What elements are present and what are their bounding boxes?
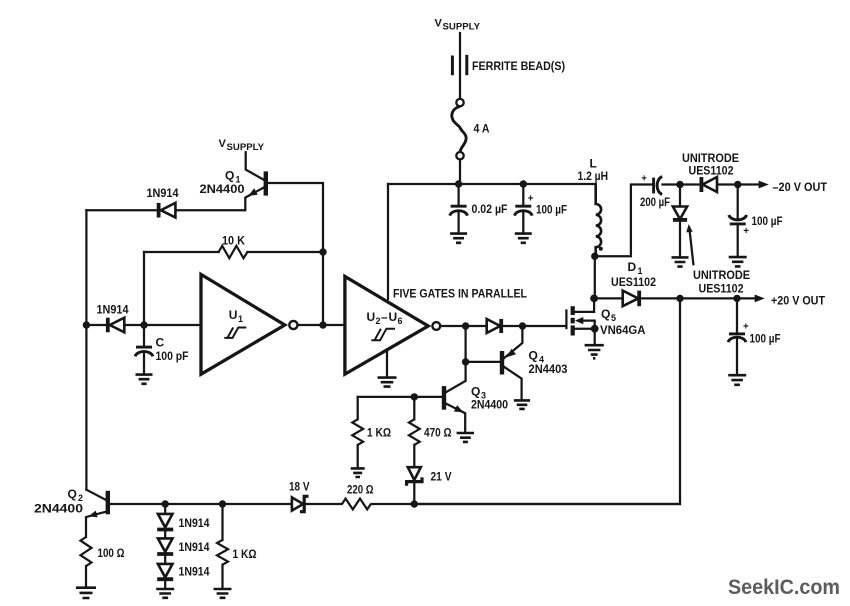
svg-text:100 µF: 100 µF — [536, 203, 567, 217]
svg-text:V: V — [219, 138, 227, 150]
svg-text:UES1102: UES1102 — [611, 275, 656, 289]
svg-text:100 Ω: 100 Ω — [98, 546, 125, 560]
svg-text:UNITRODE: UNITRODE — [693, 268, 750, 282]
svg-text:+: + — [641, 173, 647, 184]
svg-text:–: – — [381, 310, 388, 324]
svg-text:2N4400: 2N4400 — [471, 398, 508, 412]
svg-text:21 V: 21 V — [431, 470, 452, 484]
svg-text:+: + — [743, 226, 749, 237]
svg-text:5: 5 — [611, 313, 616, 323]
svg-text:10 K: 10 K — [222, 234, 245, 248]
svg-text:1 KΩ: 1 KΩ — [233, 547, 257, 561]
svg-text:UES1102: UES1102 — [699, 282, 744, 296]
svg-text:1.2 µH: 1.2 µH — [578, 169, 609, 183]
svg-text:200 µF: 200 µF — [640, 195, 670, 209]
svg-text:1N914: 1N914 — [179, 516, 210, 530]
svg-text:+: + — [743, 322, 749, 333]
svg-text:Q: Q — [225, 169, 234, 183]
svg-text:D: D — [628, 260, 637, 274]
svg-text:FIVE GATES IN PARALLEL: FIVE GATES IN PARALLEL — [393, 289, 527, 301]
svg-text:C: C — [156, 336, 165, 350]
svg-text:100 µF: 100 µF — [750, 332, 781, 346]
svg-text:100 pF: 100 pF — [156, 349, 189, 363]
svg-text:2N4400: 2N4400 — [200, 182, 245, 196]
svg-text:1N914: 1N914 — [179, 565, 210, 579]
svg-text:100 µF: 100 µF — [752, 214, 783, 228]
svg-text:1: 1 — [238, 314, 243, 324]
svg-text:Q: Q — [471, 385, 480, 399]
svg-text:18 V: 18 V — [289, 480, 310, 494]
svg-text:VN64GA: VN64GA — [600, 323, 646, 337]
svg-text:Q: Q — [529, 349, 538, 363]
svg-text:Q: Q — [68, 487, 77, 501]
svg-text:6: 6 — [398, 316, 403, 326]
svg-text:–20 V OUT: –20 V OUT — [773, 180, 828, 194]
svg-text:1N914: 1N914 — [179, 540, 210, 554]
svg-text:0.02 µF: 0.02 µF — [472, 202, 508, 216]
svg-text:1N914: 1N914 — [147, 186, 179, 200]
svg-text:V: V — [435, 18, 443, 30]
svg-text:+: + — [528, 194, 534, 205]
svg-text:FERRITE BEAD(S): FERRITE BEAD(S) — [472, 59, 565, 73]
svg-text:U: U — [367, 310, 376, 324]
svg-text:SUPPLY: SUPPLY — [443, 22, 481, 32]
svg-text:UES1102: UES1102 — [689, 164, 734, 178]
svg-text:2N4400: 2N4400 — [34, 502, 83, 516]
svg-text:SUPPLY: SUPPLY — [227, 142, 265, 152]
svg-text:220 Ω: 220 Ω — [347, 483, 374, 497]
svg-text:SeekIC.com: SeekIC.com — [728, 575, 840, 599]
svg-text:+20 V OUT: +20 V OUT — [771, 294, 826, 308]
svg-text:2: 2 — [376, 316, 381, 326]
svg-text:4 A: 4 A — [474, 122, 490, 136]
svg-text:U: U — [229, 308, 238, 322]
svg-text:Q: Q — [601, 307, 610, 321]
svg-text:1 KΩ: 1 KΩ — [367, 426, 391, 440]
svg-text:1N914: 1N914 — [97, 303, 129, 317]
svg-text:U: U — [389, 310, 398, 324]
svg-text:2N4403: 2N4403 — [529, 362, 568, 376]
svg-text:470 Ω: 470 Ω — [424, 426, 452, 440]
